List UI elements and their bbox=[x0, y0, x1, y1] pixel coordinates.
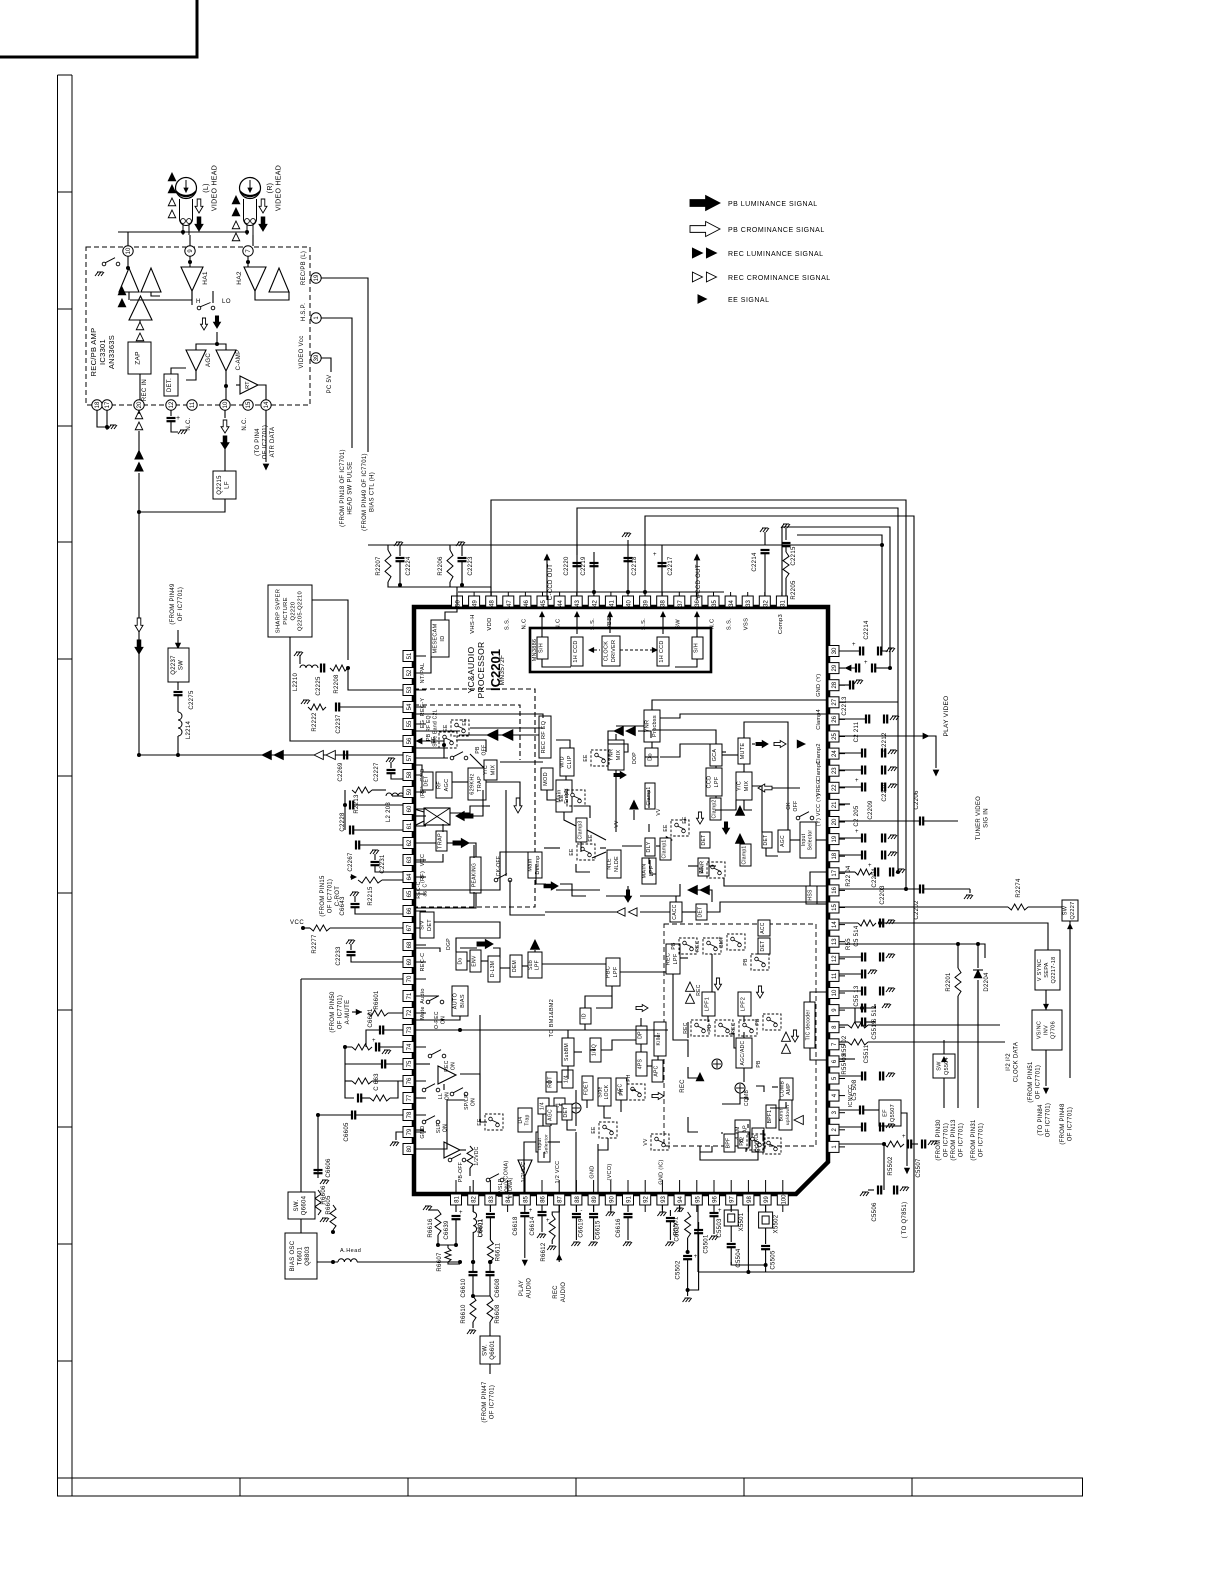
svg-text:AUDIO: AUDIO bbox=[526, 1278, 532, 1299]
pin 62 bbox=[403, 838, 414, 849]
svg-text:19: 19 bbox=[314, 274, 320, 281]
svg-text:(FROM PIN51: (FROM PIN51 bbox=[1028, 1061, 1034, 1103]
svg-text:REC CROMINANCE SIGNAL: REC CROMINANCE SIGNAL bbox=[728, 275, 831, 282]
capacitor C2227 bbox=[386, 758, 395, 762]
svg-text:35: 35 bbox=[712, 600, 718, 607]
svg-text:EE: EE bbox=[682, 816, 688, 824]
block SubBM bbox=[562, 1038, 574, 1066]
svg-text:(FROM PIN15: (FROM PIN15 bbox=[320, 875, 326, 917]
svg-text:MUTE: MUTE bbox=[740, 743, 746, 760]
wire svper to pin56 bbox=[290, 637, 406, 741]
svg-text:TRAP: TRAP bbox=[477, 776, 483, 792]
svg-text:PB-OFF: PB-OFF bbox=[458, 1162, 464, 1182]
wire route C bbox=[645, 516, 914, 1272]
block Clamp1 b bbox=[660, 838, 671, 860]
block RF AGC bbox=[436, 772, 452, 798]
svg-text:REC: REC bbox=[696, 984, 702, 996]
svg-text:AMP: AMP bbox=[786, 1083, 792, 1095]
amplifier A2 bbox=[141, 268, 161, 292]
pin 23 bbox=[828, 765, 839, 776]
block DET b bbox=[562, 1104, 572, 1120]
wire ATR arrow bbox=[265, 410, 267, 462]
svg-text:82: 82 bbox=[472, 1196, 478, 1203]
svg-text:(FROM PIN49 OF IC7701): (FROM PIN49 OF IC7701) bbox=[362, 453, 368, 531]
pin 90 bbox=[605, 1194, 616, 1205]
svg-text:1H CCD: 1H CCD bbox=[659, 640, 665, 662]
wire route E bbox=[797, 535, 888, 651]
svg-text:46: 46 bbox=[524, 600, 530, 607]
svg-text:1H CCD: 1H CCD bbox=[573, 640, 579, 662]
capacitor C2213b bbox=[839, 684, 850, 686]
capacitor C6605 bbox=[318, 1114, 352, 1116]
MN3886 block outline bbox=[530, 628, 711, 672]
svg-text:A-MUTE: A-MUTE bbox=[345, 1000, 351, 1025]
svg-text:25: 25 bbox=[832, 733, 838, 740]
svg-text:( TO Q7851): ( TO Q7851) bbox=[902, 1202, 908, 1239]
wire spine horizontal to pin57 bbox=[139, 754, 406, 756]
capacitor C2210 bbox=[839, 769, 862, 771]
video head R bbox=[240, 178, 261, 199]
resistor R6601 bbox=[368, 1010, 388, 1016]
arrow in4 bbox=[756, 741, 768, 748]
pin 11 head amp bbox=[187, 400, 197, 410]
svg-text:(FROM PIN50: (FROM PIN50 bbox=[330, 991, 336, 1033]
capacitor C5511b bbox=[839, 1075, 862, 1077]
block Main Deemp bbox=[528, 852, 542, 878]
svg-text:YNR: YNR bbox=[609, 749, 615, 762]
block EE mid bbox=[567, 790, 585, 806]
capacitor C6608 bbox=[486, 1272, 495, 1275]
pin 40 bbox=[623, 596, 634, 607]
svg-text:SubBM: SubBM bbox=[564, 1043, 570, 1061]
svg-text:42: 42 bbox=[592, 600, 598, 607]
pin 19 bbox=[828, 834, 839, 845]
svg-text:R6610: R6610 bbox=[461, 1304, 467, 1324]
svg-text:REC-C: REC-C bbox=[420, 953, 426, 972]
svg-text:14: 14 bbox=[832, 921, 838, 928]
resistor R2274 bbox=[839, 906, 1008, 908]
svg-text:(Y): (Y) bbox=[816, 818, 822, 826]
svg-text:18: 18 bbox=[95, 401, 101, 408]
svg-text:C2233: C2233 bbox=[336, 946, 342, 966]
svg-text:BIAS: BIAS bbox=[460, 994, 466, 1008]
svg-text:+: + bbox=[902, 1134, 906, 1140]
svg-text:OF IC7701): OF IC7701) bbox=[979, 1123, 985, 1157]
PB arrows on left spine bbox=[135, 618, 143, 632]
block EE 1 bbox=[451, 720, 469, 736]
pin 1 bbox=[828, 1141, 839, 1152]
block DLY bbox=[645, 838, 655, 856]
svg-text:PB: PB bbox=[707, 1024, 713, 1032]
pin 96 bbox=[709, 1194, 720, 1205]
svg-text:CLOCK: CLOCK bbox=[604, 641, 610, 661]
svg-text:C55 13: C55 13 bbox=[854, 985, 860, 1007]
svg-text:C6639: C6639 bbox=[444, 1220, 450, 1240]
svg-text:Selector: Selector bbox=[808, 830, 814, 851]
pin 9 head amp bbox=[185, 246, 195, 256]
svg-text:C-CCD OUT: C-CCD OUT bbox=[548, 564, 554, 600]
block AGC b bbox=[546, 1106, 557, 1124]
PB-chroma arrow R head bbox=[259, 199, 267, 213]
resistor R2215 bbox=[358, 877, 382, 883]
pin 25 bbox=[828, 731, 839, 742]
pin 63 bbox=[403, 855, 414, 866]
svg-text:78: 78 bbox=[407, 1111, 413, 1118]
page left border double line bbox=[58, 75, 73, 1496]
block COMB AMP bbox=[780, 1078, 793, 1100]
capacitor C2231 bbox=[370, 850, 379, 854]
svg-text:VDD: VDD bbox=[487, 617, 493, 630]
svg-text:15: 15 bbox=[246, 401, 252, 408]
svg-text:EE SIGNAL: EE SIGNAL bbox=[728, 297, 769, 304]
svg-text:Q7706: Q7706 bbox=[1051, 1021, 1057, 1039]
svg-text:47: 47 bbox=[507, 600, 513, 607]
svg-text:HEAD SW PULSE: HEAD SW PULSE bbox=[348, 461, 354, 514]
resistor R2222 bbox=[301, 700, 310, 704]
svg-text:Killer: Killer bbox=[656, 1033, 662, 1046]
svg-text:DGP: DGP bbox=[446, 938, 452, 950]
pin 53 bbox=[403, 685, 414, 696]
svg-text:REC/PB AMP: REC/PB AMP bbox=[89, 328, 98, 377]
wire CAMP down bbox=[225, 371, 227, 400]
svg-text:16: 16 bbox=[832, 886, 838, 893]
block 4.8M TRAP bbox=[735, 1120, 750, 1146]
wire RT bbox=[236, 384, 240, 386]
block CCD LPF bbox=[706, 768, 722, 796]
svg-text:Q2205-Q2210: Q2205-Q2210 bbox=[298, 591, 304, 631]
plus mixer 3 bbox=[571, 1103, 581, 1113]
pin 51 bbox=[403, 651, 414, 662]
resistor R2207 bbox=[385, 550, 391, 582]
svg-text:PB: PB bbox=[743, 958, 749, 966]
svg-text:Q5507: Q5507 bbox=[890, 1104, 896, 1122]
pin 77 bbox=[403, 1093, 414, 1104]
wire vsync down bbox=[1045, 990, 1047, 1010]
svg-text:(L): (L) bbox=[203, 183, 210, 192]
pin 88 bbox=[571, 1194, 582, 1205]
pin 3 bbox=[828, 1107, 839, 1118]
pin 7 bbox=[828, 1039, 839, 1050]
svg-text:SHARP SVPER: SHARP SVPER bbox=[276, 589, 282, 633]
pin 18 bbox=[828, 851, 839, 862]
svg-text:64: 64 bbox=[407, 873, 413, 880]
svg-text:(FROM PIN30: (FROM PIN30 bbox=[936, 1119, 942, 1161]
block YC MIX l bbox=[484, 760, 497, 780]
svg-text:(R): (R) bbox=[267, 183, 274, 194]
wire to Q2237 bbox=[177, 630, 179, 648]
svg-text:51: 51 bbox=[407, 652, 413, 659]
svg-text:ID: ID bbox=[582, 1013, 588, 1019]
svg-text:S.S.: S.S. bbox=[727, 618, 733, 630]
svg-text:63: 63 bbox=[407, 856, 413, 863]
pin 86 bbox=[537, 1194, 548, 1205]
arrow ch7 bbox=[792, 1030, 799, 1042]
pin 67 bbox=[403, 923, 414, 934]
svg-text:39: 39 bbox=[644, 600, 650, 607]
svg-text:LP/SLP: LP/SLP bbox=[498, 1178, 504, 1197]
capacitor C2267 bbox=[356, 841, 359, 850]
arrow in9 bbox=[697, 812, 704, 824]
svg-text:VCC: VCC bbox=[420, 854, 426, 867]
resistor R6612 bbox=[549, 1215, 555, 1240]
pin 80 bbox=[403, 1144, 414, 1155]
capacitor C5511 bbox=[839, 1058, 855, 1060]
legend PB luminance arrow bbox=[690, 196, 720, 211]
pin 24 bbox=[828, 748, 839, 759]
svg-text:SW: SW bbox=[179, 660, 185, 670]
svg-text:LPF: LPF bbox=[673, 953, 679, 964]
svg-text:99: 99 bbox=[764, 1196, 770, 1203]
amplifier AGC bbox=[186, 350, 206, 371]
amp audio3 bbox=[518, 1160, 532, 1176]
capacitor C2205 bbox=[839, 837, 862, 839]
capacitor C5513 bbox=[839, 973, 862, 975]
svg-text:LPF: LPF bbox=[535, 960, 541, 970]
svg-text:13: 13 bbox=[832, 938, 838, 945]
REC chroma arrows on horiz bbox=[314, 751, 323, 760]
svg-text:VCONA): VCONA) bbox=[508, 1177, 514, 1198]
svg-text:66: 66 bbox=[407, 907, 413, 914]
amplifier C-AMP bbox=[216, 350, 236, 371]
svg-text:85: 85 bbox=[523, 1196, 529, 1203]
svg-text:REC: REC bbox=[680, 1079, 686, 1093]
block DP bbox=[636, 1026, 647, 1044]
svg-text:Clamp1: Clamp1 bbox=[662, 839, 668, 858]
svg-text:96: 96 bbox=[713, 1196, 719, 1203]
svg-text:SW: SW bbox=[937, 1061, 943, 1071]
svg-text:SW.: SW. bbox=[294, 1200, 300, 1212]
pin 13 bbox=[828, 936, 839, 947]
svg-text:REC: REC bbox=[553, 1285, 559, 1299]
block EE 3 bbox=[671, 820, 689, 836]
capacitor C2217 bbox=[661, 545, 663, 596]
gnd pin93 bbox=[661, 1205, 663, 1210]
REC-chroma arrows L head bbox=[168, 198, 176, 206]
PB arrows mid bbox=[201, 318, 208, 330]
svg-text:10: 10 bbox=[223, 401, 229, 408]
page corner box top-left bbox=[0, 0, 197, 57]
svg-text:41: 41 bbox=[609, 600, 615, 607]
svg-text:AGC: AGC bbox=[444, 779, 450, 792]
svg-text:Q8803: Q8803 bbox=[305, 1246, 311, 1266]
block YNR Procbss bbox=[644, 710, 660, 742]
pin 97 bbox=[726, 1194, 737, 1205]
pin 28 bbox=[828, 680, 839, 691]
capacitor C2213 bbox=[839, 667, 856, 669]
svg-text:REC: REC bbox=[666, 953, 672, 966]
pin 52 bbox=[403, 668, 414, 679]
svg-text:SW.: SW. bbox=[482, 1344, 488, 1356]
svg-text:R2215: R2215 bbox=[368, 886, 374, 906]
svg-text:69: 69 bbox=[407, 958, 413, 965]
svg-text:22: 22 bbox=[832, 784, 838, 791]
capacitor C6611 bbox=[489, 1205, 491, 1212]
svg-text:R6616: R6616 bbox=[428, 1218, 434, 1238]
capacitor C6610 bbox=[469, 1272, 478, 1275]
capacitor C6615 bbox=[593, 1205, 595, 1212]
block PEAKING bbox=[470, 857, 481, 893]
pin 7 head amp bbox=[243, 246, 253, 256]
svg-text:93: 93 bbox=[661, 1196, 667, 1203]
wire switch bbox=[191, 291, 193, 305]
svg-text:PB: PB bbox=[671, 942, 677, 950]
svg-text:R2222: R2222 bbox=[312, 712, 318, 732]
svg-text:R2201: R2201 bbox=[946, 972, 952, 992]
pin 70 bbox=[403, 974, 414, 985]
svg-text:Mute: Mute bbox=[420, 1006, 426, 1019]
block VXO bbox=[752, 1128, 764, 1152]
pin 17 head amp bbox=[102, 400, 112, 410]
pin 45 bbox=[537, 596, 548, 607]
svg-text:+: + bbox=[372, 1038, 376, 1044]
res int bbox=[467, 1146, 473, 1168]
pin 41 bbox=[605, 596, 616, 607]
block FDET bbox=[582, 1076, 593, 1100]
svg-text:43: 43 bbox=[575, 600, 581, 607]
svg-text:ON: ON bbox=[445, 1092, 451, 1100]
svg-text:12: 12 bbox=[169, 401, 175, 408]
svg-text:S.S.: S.S. bbox=[504, 618, 510, 630]
svg-text:MAIN: MAIN bbox=[642, 864, 648, 879]
svg-text:R6607: R6607 bbox=[437, 1252, 443, 1272]
pin 93 bbox=[657, 1194, 668, 1205]
svg-text:BIAS OSC: BIAS OSC bbox=[290, 1240, 296, 1271]
capacitor C5504 bbox=[727, 1244, 736, 1247]
block MAIN LPF bbox=[642, 858, 656, 884]
amp audio2 bbox=[444, 1142, 460, 1158]
plus mixer 1 bbox=[712, 1059, 722, 1069]
1H CCD box 2 bbox=[657, 637, 669, 666]
wire A4 to ZAP bbox=[139, 320, 141, 324]
svg-text:49: 49 bbox=[473, 600, 479, 607]
REC arrows into A4 bbox=[118, 287, 126, 295]
svg-text:39: 39 bbox=[314, 354, 320, 361]
svg-text:37: 37 bbox=[678, 600, 684, 607]
capacitor C2225 bbox=[321, 664, 324, 673]
svg-text:Clamp2: Clamp2 bbox=[712, 799, 718, 818]
svg-text:PICTURE: PICTURE bbox=[283, 597, 289, 625]
svg-text:C6611: C6611 bbox=[478, 1218, 484, 1237]
svg-text:LL: LL bbox=[438, 1093, 444, 1099]
A.Head coil bbox=[317, 1261, 338, 1263]
svg-text:44: 44 bbox=[558, 600, 564, 607]
svg-text:BMT: BMT bbox=[719, 936, 725, 947]
svg-text:83: 83 bbox=[489, 1196, 495, 1203]
svg-text:R2207: R2207 bbox=[376, 556, 382, 576]
pin 11 bbox=[828, 970, 839, 981]
svg-text:PLAY: PLAY bbox=[519, 1280, 525, 1296]
svg-text:C6610: C6610 bbox=[461, 1278, 467, 1298]
pin 54 bbox=[403, 702, 414, 713]
svg-text:52: 52 bbox=[407, 669, 413, 676]
svg-text:BPF: BPF bbox=[726, 1138, 732, 1149]
chroma dashed box bbox=[664, 924, 816, 1146]
svg-text:DET: DET bbox=[698, 907, 704, 918]
capacitor C5502 bbox=[683, 1256, 692, 1259]
svg-text:OFF: OFF bbox=[482, 745, 488, 756]
arrow ch1 bbox=[686, 982, 695, 991]
legend EE arrow bbox=[698, 295, 707, 303]
page left border tick marks bbox=[58, 192, 73, 1361]
wire bottom loop bbox=[698, 1271, 914, 1273]
svg-text:Q2237: Q2237 bbox=[171, 655, 177, 675]
arrow ch5 bbox=[652, 1093, 664, 1100]
svg-text:PEAKING: PEAKING bbox=[472, 863, 478, 887]
svg-text:20: 20 bbox=[137, 401, 143, 408]
svg-text:+: + bbox=[855, 829, 859, 835]
IC2201 outline bbox=[414, 607, 828, 1194]
resistor R5502 bbox=[884, 1141, 904, 1147]
amplifier A4 rec bbox=[129, 296, 152, 320]
svg-text:VS/NC: VS/NC bbox=[1036, 1021, 1042, 1039]
svg-text:N.C: N.C bbox=[521, 619, 527, 630]
svg-text:14: 14 bbox=[264, 401, 270, 408]
block DET c bbox=[700, 832, 710, 848]
PB-luma arrow R head bbox=[259, 217, 267, 231]
gnd pin90 bbox=[610, 1205, 612, 1210]
resistor R6608 bbox=[487, 1296, 493, 1322]
capacitor C2269 bbox=[344, 751, 347, 760]
wire pin19 route bbox=[321, 278, 368, 452]
svg-text:ZAP: ZAP bbox=[135, 351, 142, 365]
block DET l bbox=[422, 772, 433, 790]
svg-text:R55 02: R55 02 bbox=[842, 1035, 848, 1057]
ZAP box bbox=[128, 342, 151, 374]
block 629KHz TRAP bbox=[468, 768, 486, 800]
svg-text:C 663: C 663 bbox=[374, 1073, 380, 1091]
svg-text:C6606: C6606 bbox=[326, 1158, 332, 1178]
svg-text:+: + bbox=[864, 660, 868, 666]
arrow ch2 bbox=[715, 978, 722, 990]
resistor R6616 bbox=[423, 1206, 432, 1210]
REC luma arrows on spine bbox=[135, 451, 143, 460]
svg-text:C2225: C2225 bbox=[316, 676, 322, 696]
svg-text:40: 40 bbox=[627, 600, 633, 607]
svg-text:C2206: C2206 bbox=[914, 790, 920, 810]
svg-text:(FROM PIN48: (FROM PIN48 bbox=[1060, 1103, 1066, 1145]
svg-text:4PS: 4PS bbox=[638, 1058, 644, 1069]
svg-text:EF: EF bbox=[883, 1109, 889, 1117]
pin 72 bbox=[403, 1008, 414, 1019]
block NLE NLDE bbox=[607, 850, 621, 878]
svg-text:(VCO): (VCO) bbox=[607, 1163, 613, 1180]
svg-text:SLP: SLP bbox=[436, 1122, 442, 1133]
svg-text:Q6604: Q6604 bbox=[302, 1195, 308, 1215]
pin 15 head amp bbox=[243, 400, 253, 410]
svg-text:PBC: PBC bbox=[606, 966, 612, 978]
pin 44 bbox=[554, 596, 565, 607]
legend REC luminance arrows bbox=[692, 248, 702, 258]
capacitor C6616 bbox=[627, 1205, 629, 1212]
sw pairs chroma2 bbox=[747, 1134, 765, 1150]
svg-text:REC LUMINANCE SIGNAL: REC LUMINANCE SIGNAL bbox=[728, 251, 824, 258]
wire pin20 spine upper bbox=[138, 410, 140, 414]
svg-text:77: 77 bbox=[407, 1094, 413, 1101]
svg-text:A.Head: A.Head bbox=[340, 1248, 361, 1254]
REC luma arrows on horiz bbox=[262, 751, 271, 760]
amplifier A1 bbox=[119, 268, 139, 292]
pin 37 bbox=[674, 596, 685, 607]
pin 66 bbox=[403, 906, 414, 917]
svg-text:D4: D4 bbox=[518, 1117, 524, 1124]
svg-text:REC/PB (L): REC/PB (L) bbox=[301, 251, 307, 285]
svg-text:58: 58 bbox=[407, 771, 413, 778]
arrow in5 bbox=[477, 940, 493, 949]
wire HA feedback bbox=[130, 291, 192, 300]
pin 58 bbox=[403, 770, 414, 781]
wire pin27 bbox=[839, 701, 898, 703]
pin 89 bbox=[588, 1194, 599, 1205]
